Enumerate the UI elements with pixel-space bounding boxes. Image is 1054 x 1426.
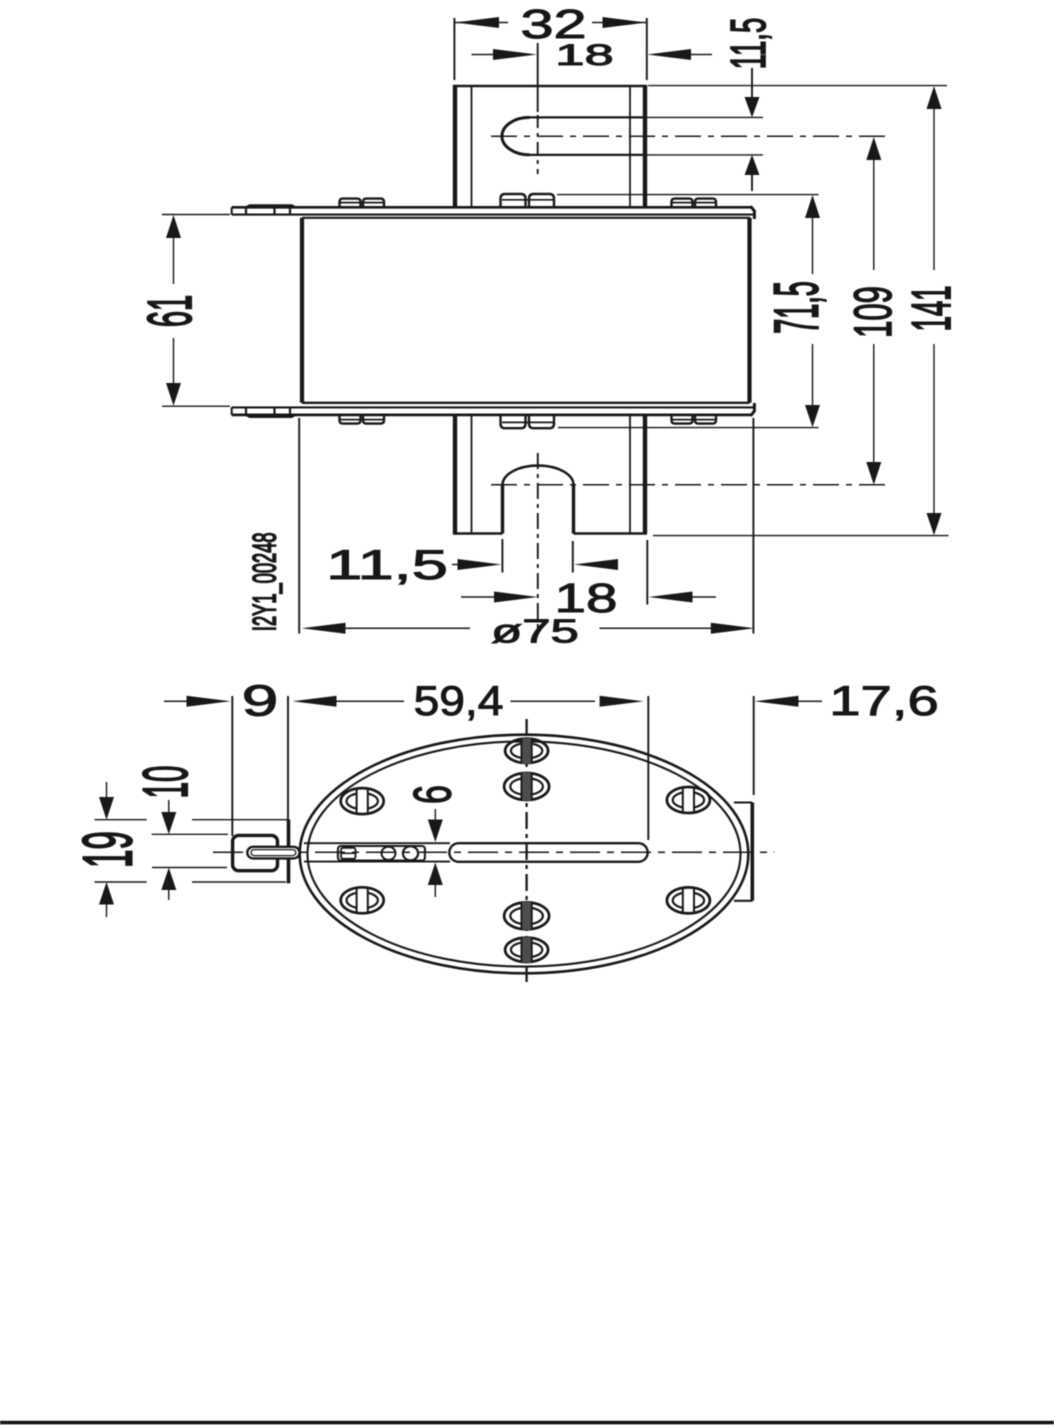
screw top inner (gray slot) [504, 773, 549, 801]
dim 10 [152, 800, 228, 900]
slot channel lines [304, 842, 450, 844]
bottom slot centre lines [491, 484, 886, 486]
svg-text:59,4: 59,4 [414, 678, 504, 725]
top cap plate [232, 206, 755, 219]
svg-text:11,5: 11,5 [326, 541, 448, 589]
top slot centre line horizontal (dash-dot) [491, 135, 886, 137]
left grip lug [233, 820, 300, 884]
svg-text:19: 19 [69, 831, 147, 868]
screw left lower [341, 887, 384, 913]
dim 11,5 (top right, slot width) [745, 68, 760, 191]
top slot centre line vertical [537, 43, 539, 112]
top blade slot (U open right) [502, 117, 763, 154]
dim 18 (top) [472, 49, 713, 60]
svg-text:9: 9 [242, 676, 279, 725]
blade slot (big pill) [449, 843, 647, 862]
top clips (contact straps) [340, 194, 717, 207]
bottom blade contact with U slot open down [453, 415, 647, 534]
screws [341, 738, 710, 962]
screw left upper [341, 788, 384, 814]
ellipse body outline [300, 735, 749, 974]
dim 61 (left) [162, 215, 230, 407]
top-left grip wing bump and ticks [244, 204, 298, 214]
dim 9 [164, 696, 288, 836]
fuse body [302, 218, 750, 403]
screw bottom outer (gray slot) [505, 937, 548, 963]
dim 71,5 (right) [557, 195, 820, 428]
dim 32 [454, 17, 646, 80]
dim 59,4 [293, 696, 649, 840]
bottom page rule [0, 1421, 1054, 1425]
dim 109 (right) [866, 137, 881, 485]
svg-text:ø75: ø75 [491, 613, 579, 650]
screw right lower [667, 887, 710, 913]
svg-text:I2Y1_00248: I2Y1_00248 [246, 532, 283, 631]
screw right upper [667, 787, 710, 813]
svg-text:11,5: 11,5 [722, 18, 776, 69]
dim Ø75 [299, 418, 755, 634]
dim 6 [428, 809, 443, 897]
svg-text:71,5: 71,5 [763, 281, 832, 334]
svg-text:10: 10 [131, 766, 202, 799]
svg-text:6: 6 [404, 785, 462, 804]
11,5 row [452, 564, 460, 566]
svg-text:141: 141 [902, 286, 963, 332]
svg-text:17,6: 17,6 [829, 677, 939, 724]
dim 19 [95, 782, 289, 917]
18 row [461, 596, 496, 598]
svg-text:61: 61 [136, 295, 205, 327]
screw top outer (gray slot) [505, 738, 548, 764]
bottom-left grip wing bump and ticks [244, 407, 298, 418]
bottom cap plate [232, 403, 755, 416]
dim 141 (far right) [648, 86, 949, 536]
right contact plate [734, 803, 752, 901]
screw bottom inner (gray slot) [504, 902, 549, 930]
small indicator box with circles [338, 846, 425, 861]
bottom clips (contact straps) [340, 415, 717, 428]
centre lines [525, 719, 527, 982]
svg-text:109: 109 [845, 286, 904, 338]
bottom dims of top view [452, 539, 716, 605]
dim 17,6 [754, 696, 822, 795]
svg-text:18: 18 [555, 38, 613, 72]
top blade contact [453, 85, 647, 207]
